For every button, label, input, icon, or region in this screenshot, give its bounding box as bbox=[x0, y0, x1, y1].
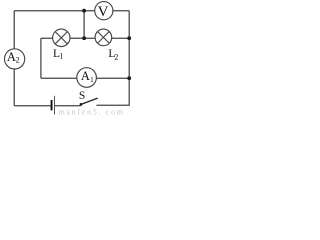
svg-text:1: 1 bbox=[59, 52, 63, 61]
svg-text:2: 2 bbox=[16, 56, 20, 65]
svg-text:1: 1 bbox=[90, 75, 94, 84]
svg-text:S: S bbox=[79, 90, 85, 102]
svg-text:manfen5. com: manfen5. com bbox=[59, 107, 125, 115]
svg-text:A: A bbox=[81, 69, 90, 83]
svg-text:V: V bbox=[98, 4, 109, 20]
svg-text:A: A bbox=[7, 50, 16, 64]
svg-text:2: 2 bbox=[114, 52, 118, 61]
